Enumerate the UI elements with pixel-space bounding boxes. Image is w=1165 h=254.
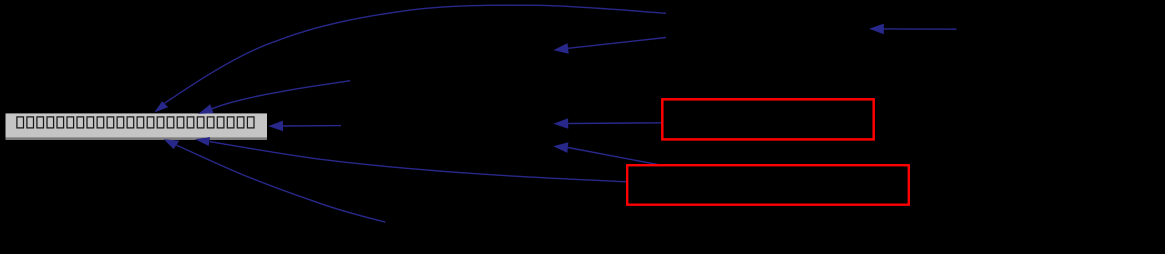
arrowhead C [268,121,283,132]
node: red-bordered truncated node 2 [627,165,909,205]
arrowhead E [195,137,210,146]
arrowhead e [553,118,568,129]
edge: short arrow from hidden node column 3 to hidden node column 2 (top) [568,38,666,49]
text: 24 missing-glyph (tofu) rectangles [17,117,254,128]
node: current function (gray box with missing-glyph text) [6,113,268,137]
edge: horizontal arrow from red node 1 to hidden column-2 node [568,122,661,125]
arrowhead A [154,101,168,112]
arrowhead f [553,142,568,153]
arrowhead B [198,104,213,114]
edge: lower long curve from hidden node to gray node bottom [176,145,385,222]
arrowhead D [164,139,180,149]
arrowhead b [553,43,568,54]
edge: horizontal arrow from far-right hidden node to column-3 node [884,28,957,30]
edge: big top curve from hidden node to gray node (top) [164,5,666,103]
edge: horizontal arrow into gray node right edge [283,125,341,127]
node: gray box darker bottom band [6,138,268,140]
edge: straight line from hidden node to gray node top [212,81,350,109]
node: red-bordered truncated node 1 [662,99,873,139]
edge: long curve from red node 2 to gray node bottom [210,142,626,182]
edge: slanted arrow from red node 2 area to hidden column-2 node [568,148,658,165]
arrowhead c [869,24,884,35]
